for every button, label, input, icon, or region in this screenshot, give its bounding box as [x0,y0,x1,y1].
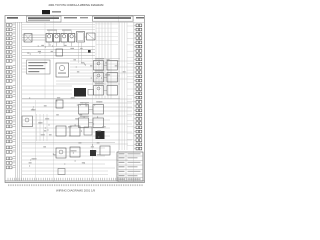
svg-text:WIRING DIAGRAMS 2001 1/9: WIRING DIAGRAMS 2001 1/9 [56,188,95,192]
svg-text:2001 TOYOTA COROLLA WIRING DIA: 2001 TOYOTA COROLLA WIRING DIAGRAM [49,3,105,7]
